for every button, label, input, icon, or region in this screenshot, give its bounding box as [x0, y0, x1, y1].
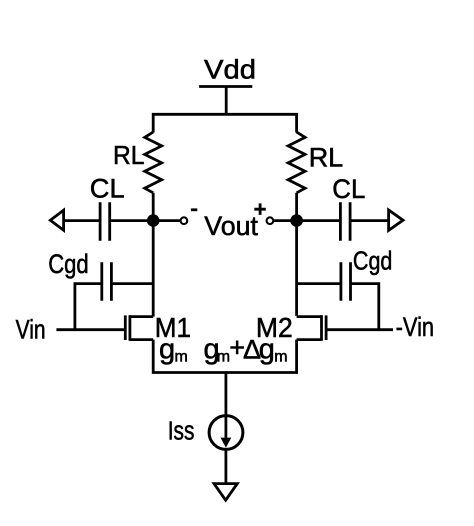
- wire left CL to arrow: [64, 219, 100, 222]
- resistor RL (right): [288, 132, 305, 193]
- label RL left: [113, 142, 145, 170]
- terminal Vout+ (open circle): [267, 217, 274, 224]
- wire right CL to arrow: [350, 219, 387, 222]
- wire node to left terminal: [153, 219, 180, 222]
- label CL left: [90, 173, 125, 203]
- wire source rail: [153, 340, 296, 373]
- current source arrowhead: [221, 438, 232, 448]
- wire right resistor to node: [295, 193, 298, 221]
- current source Iss circle: [209, 416, 243, 450]
- label -Vin: [396, 312, 435, 342]
- node B (right drain dot): [290, 214, 303, 227]
- svg-text:Iss: Iss: [168, 418, 195, 446]
- svg-text:m: m: [217, 349, 230, 366]
- svg-text:Vout: Vout: [204, 211, 258, 241]
- capacitor Cgd (right): [341, 262, 351, 300]
- label M1: [155, 312, 191, 343]
- label gm+dgm (right): [204, 333, 288, 366]
- label Vout: [204, 211, 258, 241]
- wire Vin to M1 gate: [56, 328, 125, 331]
- transistor M2: [297, 315, 327, 341]
- wire right drain to Cgd: [297, 282, 341, 285]
- minus sign: [191, 208, 197, 211]
- svg-text:Vin: Vin: [16, 315, 46, 345]
- ground: [214, 484, 237, 501]
- wire left Cgd to gate branch: [75, 284, 102, 330]
- left output arrowhead: [50, 210, 63, 230]
- power symbol Vdd bar: [199, 85, 252, 88]
- capacitor CL (right): [340, 202, 350, 241]
- label RL right: [309, 143, 344, 173]
- capacitor CL (left): [100, 202, 110, 241]
- svg-text:CL: CL: [332, 174, 365, 204]
- svg-text:Vdd: Vdd: [204, 55, 256, 85]
- wire left resistor to node: [152, 193, 155, 221]
- plus sign: [254, 203, 265, 215]
- power label Vdd: [204, 55, 256, 85]
- svg-text:RL: RL: [113, 142, 145, 170]
- wire tail to current source: [224, 373, 227, 438]
- label Iss: [168, 418, 195, 446]
- wire right Cgd to gate branch: [351, 284, 379, 330]
- wire Vdd stem: [225, 87, 228, 115]
- wire M2 gate to -Vin: [326, 328, 393, 331]
- label Cgd left: [48, 249, 88, 279]
- terminal Vout- (open circle): [181, 217, 188, 224]
- wire current source to ground: [224, 449, 227, 483]
- svg-text:Cgd: Cgd: [48, 249, 88, 279]
- label M2: [256, 312, 293, 343]
- label Cgd right: [353, 246, 393, 276]
- wire node to left CL: [110, 219, 154, 222]
- wire left node to M1 drain: [152, 221, 155, 317]
- wire top rail: [153, 114, 296, 132]
- wire left drain to Cgd: [111, 282, 153, 285]
- svg-text:m: m: [274, 349, 287, 366]
- svg-text:-Vin: -Vin: [396, 312, 435, 342]
- label Vin: [16, 315, 46, 345]
- svg-text:m: m: [175, 349, 188, 366]
- node A (left drain dot): [147, 214, 160, 227]
- right output arrowhead: [389, 210, 403, 230]
- svg-text:g: g: [259, 334, 275, 366]
- label gm (left): [159, 334, 188, 366]
- wire node to right CL: [297, 219, 341, 222]
- svg-text:Cgd: Cgd: [353, 246, 393, 276]
- wire right terminal to node: [274, 219, 297, 222]
- transistor M1: [125, 315, 153, 341]
- svg-text:CL: CL: [90, 173, 125, 203]
- wire right node to M2 drain: [295, 221, 298, 316]
- resistor RL (left): [145, 132, 162, 193]
- capacitor Cgd (left): [102, 262, 112, 300]
- svg-text:RL: RL: [309, 143, 344, 173]
- svg-text:g: g: [159, 334, 175, 366]
- label CL right: [332, 174, 365, 204]
